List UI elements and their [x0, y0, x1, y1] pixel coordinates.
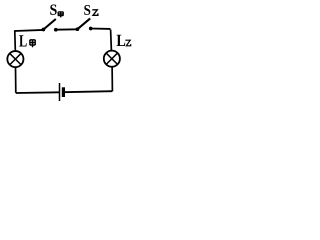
- switch S甲 blade (open): [43, 19, 55, 30]
- label S甲: letter S: [50, 5, 56, 15]
- label L乙: subscript 乙 drawn as strokes: [125, 40, 130, 46]
- switch S乙 right contact dot: [89, 27, 93, 31]
- wire: top-left horizontal conductor from corner to switch S甲 left contact: [15, 30, 44, 31]
- wire: top conductor between switch S甲 right contact and switch S乙 left contact: [56, 28, 78, 30]
- wire: bottom conductor from battery negative plate to bottom-right corner: [63, 91, 112, 92]
- switch S甲 left contact dot: [42, 28, 46, 32]
- lamp L乙 circle: [104, 51, 120, 67]
- switch S甲 right contact dot: [54, 28, 58, 32]
- label S甲: subscript 甲 drawn as strokes: [58, 12, 63, 18]
- wire: left rail from top-left corner down to lamp L甲 top: [14, 30, 17, 51]
- lamp L乙 cross diagonal 1: [106, 53, 117, 64]
- label S乙: letter S: [84, 5, 90, 15]
- battery negative plate (short thick): [62, 87, 65, 97]
- switch S乙 left contact dot: [76, 27, 80, 31]
- wire: right rail from bottom-right corner up to lamp L乙 bottom: [111, 66, 113, 91]
- label L乙: letter L: [117, 35, 126, 46]
- battery positive plate (long thin): [59, 83, 61, 101]
- label L甲: subscript 甲 drawn as strokes: [30, 40, 35, 47]
- label L甲: letter L: [19, 35, 27, 46]
- label S乙: subscript 乙 drawn as strokes: [92, 10, 98, 16]
- wire: right rail from lamp L乙 top up to top-right corner: [110, 30, 113, 52]
- switch S乙 blade (open): [77, 18, 90, 29]
- wire: top conductor from switch S乙 right contact to top-right corner: [91, 28, 111, 30]
- wire: left rail from lamp L甲 bottom down to bottom-left corner: [15, 67, 17, 93]
- lamp L甲 cross diagonal 2: [10, 53, 21, 64]
- lamp L乙 cross diagonal 2: [106, 53, 117, 64]
- lamp L甲 circle: [7, 51, 23, 67]
- wire: bottom conductor from bottom-left corner to battery positive plate: [16, 91, 60, 94]
- lamp L甲 cross diagonal 1: [10, 53, 21, 64]
